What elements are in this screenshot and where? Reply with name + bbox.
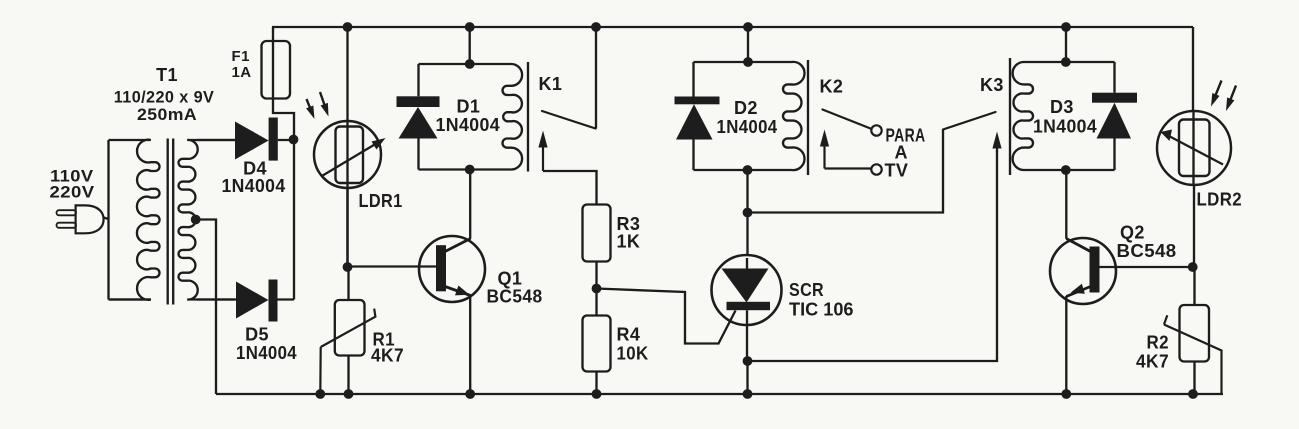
wire Q1 emitter to rail [469,295,471,394]
node SCR cathode branch [743,356,753,366]
wire R3/R4 junction to SCR gate [597,289,736,344]
svg-text:F1: F1 [232,48,250,65]
svg-text:10K: 10K [617,344,649,364]
resistor R4 [595,289,597,316]
diode D3 [1113,62,1115,93]
LDR2 [1157,111,1231,185]
relay K2 contact circle A [871,125,881,135]
relay K2 coil [694,62,805,170]
svg-text:110/220 x 9V: 110/220 x 9V [114,89,215,107]
Q2 emitter arrow [1071,284,1085,294]
relay K3 contact arrow [996,146,998,153]
wire LDR1 to base node [346,188,348,267]
transformer T1 primary winding [109,140,160,300]
wire rail to K1 [469,27,471,64]
wire K1 contact to R3 [543,171,597,205]
fuse F1 [262,41,291,99]
svg-text:4K7: 4K7 [1136,352,1169,372]
svg-text:D3: D3 [1050,97,1074,117]
node SCR anode branch [743,208,753,218]
wire plug to primary [104,140,109,300]
node bottom rail R1 wiper [315,389,325,399]
node top rail LDR1 [343,22,353,32]
svg-text:1K: 1K [617,232,641,252]
node secondary center tap [191,215,201,225]
node bottom rail R4 [592,389,602,399]
relay K3 coil [1013,62,1115,170]
resistor R1 trimpot [347,267,349,300]
diode D5 [197,298,236,300]
node K3 top [1061,57,1071,67]
wire bottom ground rail [216,393,1223,395]
relay K1 coil [419,64,523,170]
svg-text:1N4004: 1N4004 [236,343,297,363]
svg-text:BC548: BC548 [1117,241,1177,261]
svg-text:D5: D5 [245,325,269,345]
svg-text:R4: R4 [617,325,641,345]
wire primary bottom [109,298,152,300]
node R3/R4 junction [592,284,602,294]
svg-text:D1: D1 [457,97,481,117]
svg-text:TV: TV [885,161,909,181]
AC plug P1 [76,205,104,233]
node K3 bottom [1061,165,1071,175]
relay K3 core [1009,58,1011,175]
svg-text:TIC 106: TIC 106 [789,300,854,320]
wire K2 to SCR anode [746,170,748,256]
svg-text:T1: T1 [156,65,178,85]
node top rail K1 [465,22,475,32]
svg-text:1N4004: 1N4004 [717,117,778,137]
wire Q2 base [1100,266,1193,268]
svg-text:K3: K3 [980,75,1004,95]
node LDR1/R1/Q1-base junction [343,262,353,272]
resistor R3 [583,205,611,262]
svg-text:1N4004: 1N4004 [222,176,286,196]
svg-text:250mA: 250mA [137,105,197,124]
relay K2 core [807,60,809,175]
relay K3 contact arm [943,112,996,130]
svg-text:220V: 220V [50,183,95,202]
node K2 bottom [743,165,753,175]
wire SCR cathode to K3 arrow [748,150,998,361]
svg-text:D2: D2 [734,98,758,118]
diode D4 [197,139,235,141]
LDR2 light arrows [1215,81,1221,97]
node bottom rail Q2 emitter [1061,389,1071,399]
wire SCR anode to K3 arm [748,130,944,213]
svg-text:A: A [895,143,908,163]
wire top supply rail [272,26,1193,28]
transistor Q1 [419,236,485,302]
svg-text:K2: K2 [820,77,844,97]
svg-text:Q1: Q1 [498,269,523,289]
node K2 top [743,57,753,67]
wire rail to K1 contact [595,27,597,129]
node bottom rail SCR [743,389,753,399]
svg-text:BC548: BC548 [487,287,543,307]
svg-text:LDR1: LDR1 [359,191,403,211]
wire K3 to Q2 collector [1065,170,1067,239]
svg-text:4K7: 4K7 [371,346,404,366]
wire base Q1 [348,265,437,267]
relay K2 contact arm [823,110,871,129]
diode D1 [417,64,419,96]
transformer T1 secondary winding [179,140,236,300]
node K1 bottom [465,165,475,175]
wire Q1 collector to K1 [469,170,471,239]
relay K1 contact arrow [542,145,544,172]
resistor R2 trimpot [1193,267,1195,305]
SCR TIC106 [712,255,782,325]
node rectifier junction [289,135,299,145]
relay K2 contact circle B [871,164,881,174]
node top rail K1 contact [591,22,601,32]
svg-text:Q2: Q2 [1120,223,1145,243]
node bottom rail Q1 emitter [465,389,475,399]
wire SCR cathode to rail [746,361,748,394]
node top rail K2 [743,22,753,32]
svg-text:K1: K1 [539,74,563,94]
LDR1 light arrows [307,99,311,109]
transistor Q2 [1050,238,1116,304]
node K1 top [465,59,475,69]
wire rail to LDR2 [1192,27,1195,185]
wire rail to K3 [1065,27,1067,62]
node bottom rail R1 [344,389,354,399]
relay K1 core [527,62,529,172]
svg-text:1N4004: 1N4004 [436,115,501,135]
wire rectifier output [293,140,295,300]
LDR1 [314,121,381,188]
relay K2 contact arrow [823,144,825,169]
svg-text:1A: 1A [232,64,252,81]
svg-text:LDR2: LDR2 [1197,190,1243,210]
wire rail to LDR1 [346,27,348,267]
node LDR2/R2/Q2-base junction [1188,262,1198,272]
relay K1 contact arm [542,111,596,129]
wire rail to K2 [747,27,749,62]
transformer T1 core [168,139,174,305]
wire Q2 emitter to rail [1065,296,1067,394]
wire K2 arrow to TV contact [825,167,871,169]
svg-text:SCR: SCR [789,280,824,300]
node bottom rail R2 [1188,389,1198,399]
wire LDR2 to Q2 base node [1193,185,1195,267]
svg-text:R2: R2 [1147,333,1170,353]
diode D2 [692,62,694,97]
Q1 emitter arrow [455,286,470,296]
node top rail K3 [1061,22,1071,32]
svg-text:1N4004: 1N4004 [1033,117,1097,137]
